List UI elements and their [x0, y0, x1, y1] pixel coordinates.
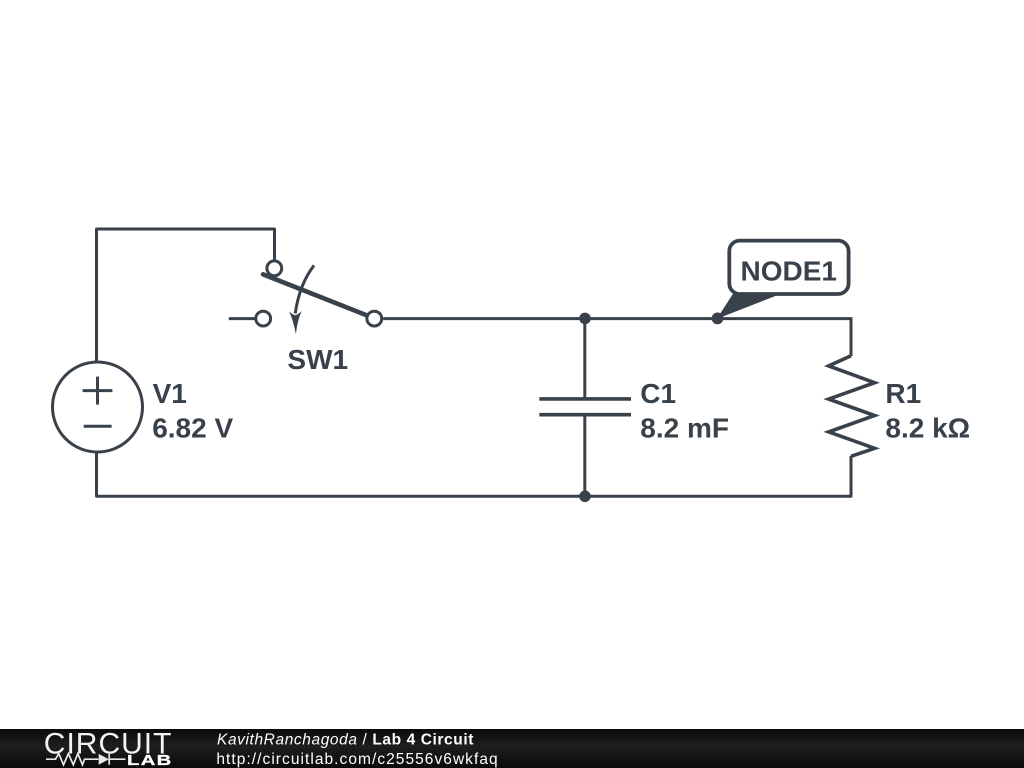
- svg-text:LAB: LAB: [127, 751, 173, 768]
- svg-text:6.82 V: 6.82 V: [152, 412, 233, 443]
- wire capacitor bottom lead: [583, 416, 586, 496]
- svg-text:8.2 mF: 8.2 mF: [640, 412, 729, 443]
- wire bottom rail: [97, 453, 852, 497]
- svg-text:8.2 kΩ: 8.2 kΩ: [885, 412, 970, 443]
- svg-text:V1: V1: [153, 378, 187, 409]
- node NODE1 callout pointer: [717, 293, 783, 319]
- svg-text:SW1: SW1: [287, 344, 348, 375]
- switch arrow: [295, 265, 314, 313]
- wire capacitor top lead: [583, 319, 586, 398]
- voltage source V1: [53, 362, 143, 452]
- label R1 value: [885, 378, 970, 443]
- wire resistor top lead: [850, 317, 853, 356]
- switch pole left: [256, 311, 271, 326]
- footer bar: [0, 729, 1024, 768]
- label V1 value: [152, 378, 233, 443]
- resistor R1: [829, 356, 875, 457]
- svg-text:R1: R1: [885, 378, 921, 409]
- logo resistor-diode glyph: [46, 754, 126, 765]
- switch arm: [263, 274, 368, 315]
- svg-text:C1: C1: [640, 378, 676, 409]
- node NODE1 dot: [712, 313, 724, 325]
- switch SW1: [256, 261, 382, 334]
- svg-text:KavithRanchagoda / Lab 4 Circu: KavithRanchagoda / Lab 4 Circuit: [217, 731, 474, 748]
- label C1 value: [640, 378, 729, 443]
- junction capacitor bottom: [579, 491, 591, 503]
- junction capacitor top: [579, 313, 591, 325]
- wire switch output to resistor top: [383, 317, 851, 320]
- wire top-left: V1 top to switch terminal: [97, 229, 275, 362]
- node NODE1 box: [729, 241, 848, 294]
- wire switch stub left pole: [229, 317, 255, 320]
- capacitor C1: [539, 399, 631, 415]
- switch terminal top: [267, 261, 282, 276]
- switch moving contact: [367, 311, 382, 326]
- svg-text:NODE1: NODE1: [741, 256, 837, 287]
- svg-text:http://circuitlab.com/c25556v6: http://circuitlab.com/c25556v6wkfaq: [216, 751, 498, 768]
